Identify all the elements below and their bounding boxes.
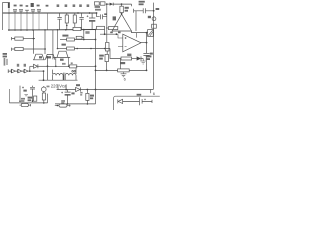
wire x33.5 down [33, 30, 35, 54]
junction bus mid [67, 103, 88, 105]
transistor T3 hump [53, 51, 70, 57]
junction x104.8 row [104, 48, 106, 50]
resistor R19 vertical [34, 96, 37, 101]
left text block low [4, 58, 6, 66]
label col88 [87, 4, 90, 7]
speaker BZ1 [148, 30, 154, 37]
wire x58 stub [57, 84, 59, 89]
bus y70.5 [96, 69, 118, 71]
wire x29.8 up [29, 66, 31, 71]
text block top right [139, 1, 145, 3]
label +9V [156, 8, 160, 10]
wire R11 right [76, 65, 96, 67]
left faint vertical [8, 89, 10, 103]
small label [23, 90, 26, 92]
label R12 [125, 7, 129, 9]
wire down x106.8 [106, 4, 108, 42]
wire to junction [28, 70, 43, 72]
wire rectifier row [57, 89, 76, 91]
diode D4 [34, 64, 38, 68]
wire R14 to diode [132, 58, 137, 60]
enclosure box [114, 96, 160, 110]
LED DL1 circle [42, 87, 47, 92]
ground D7 [140, 59, 146, 65]
wire in box [123, 100, 140, 102]
label C5 [37, 5, 40, 7]
junction dot x29.8 [29, 70, 31, 72]
svg-text:6: 6 [153, 91, 156, 96]
label C15 [137, 94, 142, 96]
wire column x21 [20, 13, 22, 30]
ground mark mid [24, 94, 28, 96]
label under U1 [127, 54, 131, 56]
wire x83.8 down [83, 30, 85, 40]
capacitor C5 [37, 9, 41, 13]
mid bus [8, 29, 96, 32]
resistor R18 vertical [42, 93, 45, 100]
label C13 [150, 53, 153, 55]
label DL1 [47, 86, 50, 88]
junction dot rail [153, 10, 155, 12]
label R10 [62, 44, 66, 46]
wire column x47 [47, 13, 49, 30]
capacitor C7 [79, 13, 83, 30]
capacitor C15 [140, 97, 153, 105]
top bus [3, 12, 97, 14]
resistor R15 [118, 69, 130, 72]
trimmer P1 [94, 2, 99, 5]
transformer TR1 bottom bus [39, 79, 78, 81]
label C2 [20, 5, 23, 7]
junction bots [19, 100, 44, 103]
diode D3 [22, 69, 28, 73]
wire base to speaker [132, 31, 148, 33]
label R19 [28, 97, 33, 99]
bottom bus left [9, 102, 47, 104]
label F2 [61, 100, 65, 102]
right rail [153, 3, 155, 90]
wire x66 stub [65, 84, 67, 89]
junction dot D5 [121, 3, 123, 5]
wire row2 [23, 48, 46, 50]
resistor R12 vertical [121, 4, 123, 6]
U1 output wire [140, 42, 147, 44]
capacitor C13 on line [143, 53, 149, 55]
label D6 [76, 84, 80, 86]
U1 power stub [136, 33, 138, 38]
junction bus70 x95 [95, 70, 97, 72]
transformer TR1 secondary [65, 73, 76, 80]
vertical common x95.5 [95, 30, 97, 104]
junction R15 x146 [146, 70, 148, 72]
label B1 [8, 2, 10, 8]
electrolytic C11 [65, 90, 71, 93]
label R16 [99, 55, 104, 57]
label C9 [104, 13, 106, 15]
label C6 top [46, 56, 51, 58]
svg-text:220 Vca: 220 Vca [51, 84, 67, 89]
resistor R1 [15, 37, 23, 40]
long wire y89.5 [96, 89, 154, 91]
label IC text [85, 31, 89, 34]
wire column x39 [38, 13, 40, 30]
electrolytic C8 plus sign [87, 15, 89, 17]
transistor T1 hump [33, 54, 45, 60]
label R7 [62, 35, 68, 37]
vertical x146.5 [146, 33, 148, 71]
wire R15 right [129, 69, 146, 71]
fuse F2 [55, 105, 71, 107]
bottom bus mid [55, 103, 96, 105]
terminal tick diode row [8, 69, 11, 73]
electrolytic C11 plus [61, 92, 63, 94]
junction row1 [33, 38, 35, 40]
label D1 [17, 64, 19, 67]
junction R11 common [95, 65, 97, 67]
junction output [146, 42, 148, 44]
label C5 top [39, 56, 42, 58]
terminal tick row2 [12, 48, 15, 51]
electrolytic C8 [89, 13, 95, 18]
end tick y89.5 [150, 90, 152, 94]
frame top border [3, 3, 9, 30]
plus label [22, 87, 24, 89]
resistor R4 vertical [74, 13, 76, 15]
connector box on rail [152, 24, 157, 28]
resistor R5 on bus [97, 13, 100, 17]
wire D4 to junction [38, 65, 48, 67]
label D2 [24, 64, 26, 67]
junction row2 [44, 48, 46, 50]
label D7 [146, 55, 152, 57]
wire column x27 [26, 13, 28, 30]
label U2 [113, 16, 116, 20]
resistor R3 vertical [66, 13, 68, 15]
wire top right [122, 4, 132, 6]
transistor T2 hump [45, 54, 55, 59]
junction R17 bus [106, 70, 108, 72]
U1 plus minus [125, 37, 127, 47]
capacitor C2 [19, 9, 23, 13]
label col74 [73, 4, 76, 7]
resistor R10 [67, 47, 75, 50]
diode D6 [76, 87, 96, 91]
label C1 [14, 5, 17, 7]
junction dots rect row [65, 89, 96, 91]
trimmer P2 [100, 2, 105, 5]
wire R7 to junction [74, 39, 95, 41]
capacitor C6 [57, 13, 61, 30]
wire x43.5 down [43, 71, 45, 80]
resistor R17 vertical [106, 51, 108, 54]
diode D2 [15, 69, 21, 73]
resistor R11 [69, 65, 76, 68]
capacitor C4 [31, 9, 35, 13]
diode D1 [11, 69, 15, 73]
wire x47.5 up [47, 94, 49, 103]
terminal tick row1 [12, 37, 15, 40]
resistor R21 vertical [86, 90, 88, 94]
junction dots mid bus [8, 29, 96, 31]
capacitor C14 [30, 86, 35, 101]
wire column x33 [32, 13, 34, 30]
wire row1 [23, 38, 35, 40]
op-amp U1 triangle right [123, 34, 141, 52]
wire to diode D5 [107, 3, 110, 5]
diode D5 [110, 3, 114, 6]
wire x20 [19, 86, 21, 101]
transformer legs up [53, 68, 76, 74]
junction dots top bus [8, 12, 97, 14]
junction dot below R3 [66, 25, 68, 27]
resistor R13 horizontal [106, 27, 108, 29]
capacitor C9 [100, 14, 106, 19]
ground R15 [121, 72, 127, 77]
diode D7 [137, 56, 141, 60]
fuse F1 [20, 104, 32, 106]
junction dots y34 [104, 33, 118, 35]
label near circle [148, 16, 151, 18]
label C11 [71, 92, 74, 94]
capacitor C10 [134, 8, 154, 13]
wire R10 right [74, 48, 110, 50]
transformer terminal circles [72, 71, 74, 73]
transformer TR1 primary [53, 74, 64, 81]
resistor R2 [15, 47, 23, 50]
wire x45 down [44, 30, 46, 54]
junction speaker wire [146, 32, 148, 34]
junction x77 [76, 48, 78, 50]
label small x80 [80, 92, 82, 94]
resistor R9b [76, 36, 82, 39]
label T3 [60, 59, 64, 61]
label C4 [31, 3, 34, 7]
transformer core bars [64, 73, 65, 81]
label F1 [21, 98, 25, 100]
plus C15 [144, 99, 146, 101]
junction dot x43.5 [43, 70, 45, 72]
text block left edge [3, 53, 7, 55]
resistor R14 [121, 57, 132, 60]
wire column x15 [14, 13, 16, 30]
wire R7 row [60, 39, 67, 41]
U1 input stub [118, 34, 123, 46]
label R14 [120, 62, 125, 64]
end tick in box [151, 100, 153, 103]
terminal circle on rail [152, 17, 156, 21]
resistor R6 on bus [97, 26, 105, 29]
wire R10 row [58, 48, 67, 50]
op-amp U2 triangle up [112, 14, 132, 31]
wire x136 from cap [135, 11, 137, 31]
wire diode D4 row [30, 65, 34, 67]
label x47 [46, 5, 49, 7]
U2 pin marks [110, 32, 113, 34]
label R11 [62, 63, 66, 65]
wire x104.6 [104, 30, 106, 35]
junction bus x43.5 [43, 79, 45, 81]
label col66 [65, 4, 68, 7]
junction row2 mid [57, 48, 59, 50]
wire x120.5 down [120, 59, 122, 69]
diode D8 in box [118, 99, 123, 103]
capacitor C1 [13, 9, 17, 13]
resistor R8 on bus [73, 27, 81, 30]
label col58 [57, 4, 60, 7]
resistor R7 [67, 38, 75, 41]
wire column x9 [8, 8, 10, 30]
label col80 [79, 4, 82, 7]
input wire y34 [100, 33, 118, 35]
capacitor C3 [25, 10, 29, 13]
junction x95.5 [95, 39, 97, 41]
wire R11 row [48, 65, 69, 67]
svg-text:6: 6 [124, 77, 127, 82]
resistor R16 vertical [105, 43, 109, 51]
label R21 [90, 95, 94, 97]
junction dot x47.5 [47, 65, 49, 67]
wire feedback left [110, 49, 121, 59]
label C3 [26, 5, 29, 7]
op-amp U2 apex dot [121, 13, 123, 15]
wire x52.9 down [52, 30, 54, 60]
